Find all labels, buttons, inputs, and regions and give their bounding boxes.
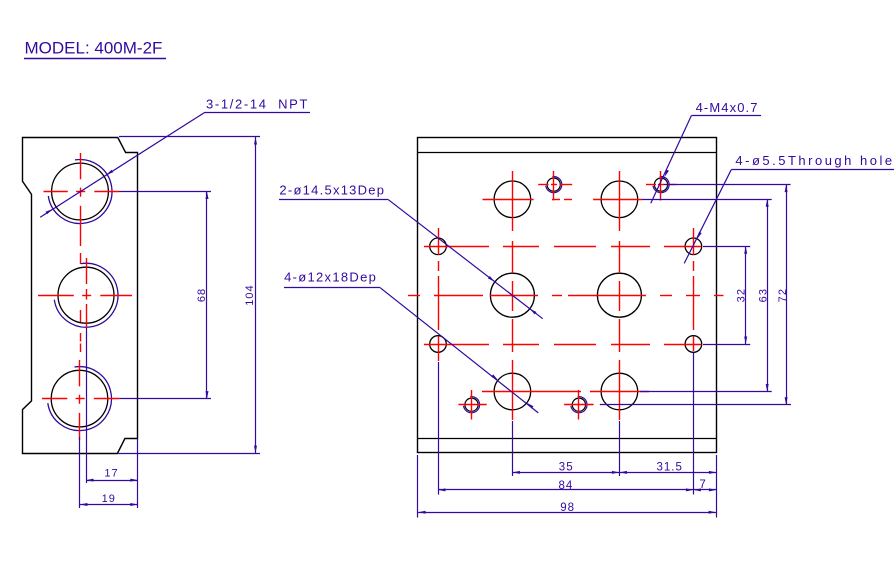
thread arc P2 (54, 263, 118, 327)
dimension 19 line (80, 504, 138, 506)
hole D2 top-right 12dia (601, 181, 638, 218)
label 4-dia12 underline (284, 287, 380, 289)
centerline P3 horizontal (42, 398, 119, 400)
leader 4-M4 arrow (665, 170, 670, 177)
centerline col M4 bottom-left (471, 390, 473, 420)
svg-text:19: 19 (102, 493, 116, 505)
dimension 72 arrow top (785, 185, 788, 193)
dimension 98 arrow right (709, 511, 717, 514)
extension line col A down (438, 362, 440, 495)
extension line right edge lower (137, 439, 139, 508)
centerline col A right 5.5 (693, 228, 695, 351)
dimension 32 line (745, 246, 747, 344)
extension line row M4 bottom right (600, 404, 791, 406)
hole M2 tapped M4 top-right (654, 178, 667, 191)
dimension 31.5 arrow left (619, 471, 627, 474)
hole M1 tapped M4 top-left (547, 178, 560, 191)
dimension 63 line (767, 199, 769, 391)
dimension 72 line (786, 185, 788, 405)
dimension 17 arrow left (86, 479, 94, 482)
centerline P1 vertical (80, 153, 82, 246)
left view body outline (23, 138, 138, 454)
dimension 31.5 arrow right (709, 471, 717, 474)
right view plate outline (417, 138, 716, 453)
dimension 63 arrow bottom (766, 384, 769, 392)
thread arc P3 (48, 367, 112, 431)
svg-text:68: 68 (196, 288, 208, 302)
dimension 17 arrow right (130, 479, 138, 482)
dimension 68 line (206, 192, 208, 399)
dimension 31.5 line (619, 472, 716, 474)
port hole P1 (top NPT) (52, 163, 109, 220)
leader 4-dia12 line (380, 288, 538, 413)
centerline row 5.5 upper (424, 246, 702, 248)
centerline row 14.5 middle (408, 295, 724, 297)
leader NPT arrow lower (46, 209, 53, 214)
extension line col D down (619, 421, 621, 476)
dimension 35 arrow right (612, 471, 620, 474)
centerline row M4 bottom (458, 404, 593, 406)
centerline col B left (512, 171, 514, 420)
dimension 35 line (512, 472, 619, 474)
dimension 84 arrow left (438, 488, 446, 491)
leader 4-dia5.5 line (684, 170, 731, 264)
port hole P2 (middle NPT) (58, 267, 114, 323)
dimension 32 arrow bottom (744, 337, 747, 345)
leader 2-dia14.5 arrow upper (488, 276, 495, 282)
extension line row M4 top right (664, 184, 791, 186)
centerline col M4 top-right (660, 171, 662, 201)
dimension 7 arrow left (693, 488, 701, 491)
title underline (24, 58, 166, 60)
svg-text:32: 32 (735, 288, 747, 303)
svg-text:7: 7 (699, 479, 705, 491)
svg-text:4-ø12x18Dep: 4-ø12x18Dep (284, 270, 377, 285)
extension line plate left edge down (417, 455, 419, 518)
dimension 7 line (693, 489, 716, 491)
extension line P2 center down (86, 328, 88, 483)
extension line top edge right (119, 136, 260, 138)
label 4-M4 underline (691, 115, 761, 117)
hole E1 mid-left 14.5dia (490, 273, 534, 317)
centerline row 12dia bottom (482, 391, 649, 393)
extension line plate right edge down (716, 455, 718, 518)
centerline col M4 bottom-right (578, 390, 580, 420)
hole E2 mid-right 14.5dia (597, 273, 641, 317)
svg-text:63: 63 (757, 288, 769, 303)
svg-text:31.5: 31.5 (657, 462, 683, 474)
extension line P3 center right (119, 398, 211, 400)
centerline row 5.5 lower (424, 344, 702, 346)
hole M4 tapped M4 bottom-right (572, 398, 585, 411)
svg-text:MODEL: 400M-2F: MODEL: 400M-2F (25, 39, 163, 58)
dimension 32 arrow top (744, 246, 747, 254)
extension line row 5.5 lower right (703, 344, 750, 346)
svg-text:84: 84 (559, 480, 574, 492)
leader 4-M4 line (651, 116, 692, 204)
hole D3 bottom-left 12dia (494, 373, 531, 410)
svg-text:98: 98 (560, 502, 575, 514)
port hole P3 (bottom NPT) (51, 370, 108, 427)
svg-text:35: 35 (559, 462, 574, 474)
extension line col F down (693, 353, 695, 495)
svg-text:4-ø5.5Through hole: 4-ø5.5Through hole (735, 153, 894, 168)
centerline col M4 top-left (553, 171, 555, 201)
svg-text:72: 72 (777, 288, 789, 303)
centerline P1 horizontal (44, 191, 120, 193)
centerline col A left 5.5 (438, 228, 440, 361)
leader 2-dia14.5 arrow lower (530, 309, 537, 315)
centerline P2 vertical (86, 258, 88, 328)
dimension 104 arrow bottom (254, 446, 257, 454)
thread arc P1 (48, 160, 112, 224)
centerline column dashes between ports (80, 253, 82, 352)
dimension 84 line (438, 489, 693, 491)
centerline row 12dia top (483, 199, 643, 201)
dimension 19 arrow right (130, 503, 138, 506)
hole M3 tapped M4 bottom-left (465, 398, 478, 411)
extension line P3 center down (79, 437, 81, 508)
leader 4-dia5.5 arrow (697, 232, 702, 239)
hole D1 top-left 12dia (494, 181, 531, 218)
dimension 17 line (86, 480, 138, 482)
svg-text:104: 104 (244, 284, 256, 305)
dimension 35 arrow left (512, 471, 520, 474)
dimension 84 arrow right (686, 488, 694, 491)
svg-text:4-M4x0.7: 4-M4x0.7 (696, 100, 759, 115)
leader 4-dia12 arrow lower (527, 403, 534, 409)
hole T2 through 5.5dia upper-right (685, 238, 702, 255)
dimension 98 line (418, 512, 716, 514)
dimension 68 arrow top (206, 192, 209, 200)
svg-text:2-ø14.5x13Dep: 2-ø14.5x13Dep (279, 183, 385, 198)
centerline row M4 top (538, 184, 676, 186)
dimension 7 arrow right (709, 488, 717, 491)
hole T1 through 5.5dia upper-left (430, 238, 447, 255)
leader 2-dia14.5 line (389, 200, 543, 319)
dimension 98 arrow left (418, 511, 426, 514)
dimension 68 arrow bottom (206, 391, 209, 399)
extension line P1 center right (119, 191, 211, 193)
label NPT underline (205, 112, 310, 114)
centerline P2 horizontal (38, 295, 132, 297)
extension line row 12 bottom right (640, 391, 772, 393)
hole T3 through 5.5dia lower-left (430, 336, 447, 353)
dimension 19 arrow left (80, 503, 88, 506)
extension line row 5.5 upper right (703, 246, 750, 248)
extension line bottom edge right (118, 453, 260, 455)
centerline col B right (619, 171, 621, 420)
dimension 104 arrow top (254, 137, 257, 145)
dimension 104 line (255, 137, 257, 453)
hole T4 through 5.5dia lower-right (685, 336, 702, 353)
hole D4 bottom-right 12dia (601, 373, 638, 410)
label 2-dia14.5 underline (279, 199, 389, 201)
centerline P3 vertical (79, 360, 81, 440)
dimension 63 arrow top (766, 199, 769, 207)
label 4-dia5.5 underline (731, 169, 894, 171)
leader 4-dia12 arrow upper (491, 374, 498, 380)
leader NPT line (40, 112, 205, 217)
extension line col B down (512, 421, 514, 476)
extension line row 12 top right (642, 199, 772, 201)
dimension 72 arrow bottom (785, 397, 788, 405)
leader NPT arrow upper (106, 170, 113, 175)
svg-text:17: 17 (104, 468, 118, 480)
svg-text:3-1/2-14 NPT: 3-1/2-14 NPT (206, 97, 309, 112)
